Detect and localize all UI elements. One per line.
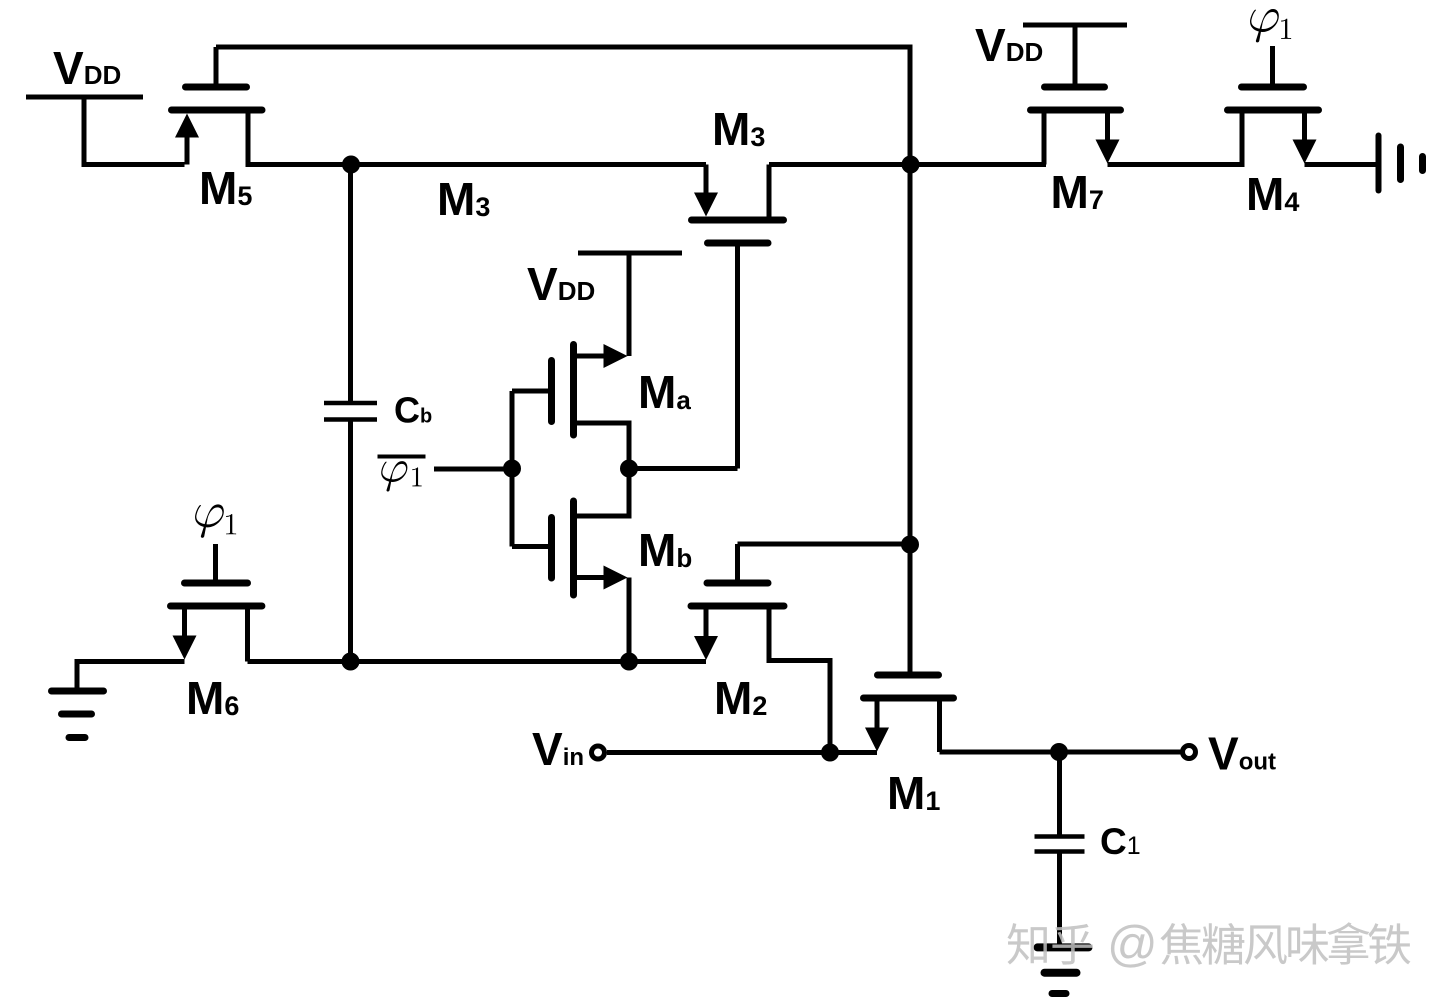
wire phi1bar to TG gates [434, 467, 512, 472]
node junction TG output [620, 460, 638, 478]
label M4 [1246, 168, 1299, 220]
wire M3 source to node X along bus [769, 162, 1046, 167]
svg-text:M4: M4 [1246, 168, 1299, 220]
wire Ma gate lead [512, 389, 549, 394]
node junction bus / Cb [342, 156, 360, 174]
label VDD M7 [975, 19, 1043, 71]
wire M7 source to M4 drain [1108, 162, 1245, 167]
label M3 (net label left) [437, 173, 490, 225]
wire M1 drain to Vout [940, 750, 1182, 755]
label Cb [394, 390, 432, 431]
svg-text:M1: M1 [887, 767, 940, 819]
svg-text:M2: M2 [714, 672, 767, 724]
wire M2 gate to node X [738, 542, 909, 547]
svg-text:M3: M3 [437, 173, 490, 225]
transistor M2 [691, 544, 830, 753]
svg-text:M3: M3 [712, 103, 765, 155]
node junction Vout / C1 [1050, 743, 1068, 761]
ground (bottom, C1) [1038, 947, 1089, 993]
terminal Vin [592, 746, 605, 759]
svg-text:M6: M6 [186, 672, 239, 724]
power rail VDD (Ma) [578, 253, 682, 356]
label M5 [199, 162, 252, 214]
wire TG gate vertical [510, 391, 515, 547]
wire Mb gate lead [512, 544, 549, 549]
svg-text:Vin: Vin [532, 723, 584, 775]
svg-text:Cb: Cb [394, 390, 432, 431]
label VDD left [53, 42, 121, 94]
transistor M3 (flipped, drain from bus) [692, 165, 784, 469]
label M3 (at transistor) [712, 103, 765, 155]
transistor Ma (rotated) [552, 344, 630, 469]
wire M5 drain to M3 drain along main bus y=164.5 [246, 162, 707, 167]
node junction bus / node X [902, 156, 920, 174]
watermark zhihu @jiaotang fengwei natie [1007, 916, 1410, 972]
node junction bottom net / Cb [342, 653, 360, 671]
label M6 [186, 672, 239, 724]
ground (right-facing, M4 source) [1379, 136, 1423, 191]
capacitor Cb [324, 165, 377, 662]
ground (left, M6 source) [52, 691, 104, 738]
wire top gate bus from M5 gate to node X vertical [216, 45, 910, 50]
svg-text:M5: M5 [199, 162, 252, 214]
svg-text:C1: C1 [1100, 821, 1141, 862]
transistor M5 [172, 47, 263, 165]
svg-text:VDD: VDD [53, 42, 121, 94]
svg-text:Mb: Mb [638, 524, 692, 576]
transistor M1 [864, 675, 954, 752]
label Vin [532, 723, 584, 775]
label C1 [1100, 821, 1141, 862]
wire phi1 lead to M4 gate [1270, 46, 1275, 87]
terminal Vout [1183, 746, 1196, 759]
label Ma [638, 366, 691, 418]
wire Vin to M1 source [607, 750, 877, 755]
capacitor C1 [1035, 752, 1085, 944]
transistor M7 [1031, 87, 1121, 165]
node junction node X / M2 gate [901, 536, 919, 554]
node junction Vin wire / M2 drain [821, 744, 839, 762]
wire VDD rail to M5 source [84, 95, 185, 165]
label phi1 (M4 gate) [1250, 9, 1291, 42]
node junction TG gate [503, 460, 521, 478]
power rail VDD (left, M5 source) [26, 95, 143, 100]
svg-text:VDD: VDD [527, 258, 595, 310]
wire vertical bus node X (x=910) from top bus down to M1 gate [908, 45, 913, 674]
wire phi1 lead to M6 gate [213, 544, 218, 583]
label Mb [638, 524, 692, 576]
label phi1bar (overline) [378, 457, 426, 492]
power rail VDD (M7 gate) [1023, 25, 1127, 87]
node junction bottom net / Mb [620, 653, 638, 671]
label M1 [887, 767, 940, 819]
label M2 [714, 672, 767, 724]
label M7 [1051, 166, 1104, 218]
transistor M4 [1228, 87, 1319, 165]
label phi1 (M6 gate) [195, 504, 236, 537]
svg-text:@: @ [1107, 916, 1158, 972]
label Vout [1208, 728, 1276, 780]
transistor M6 [171, 583, 262, 662]
transistor Mb (rotated) [552, 466, 630, 662]
label VDD Ma [527, 258, 595, 310]
svg-text:M7: M7 [1051, 166, 1104, 218]
wire TG output to M3 gate riser [629, 466, 738, 471]
wire bottom net from M6 drain to M2 source [248, 659, 707, 664]
wire M4 source to ground [1305, 162, 1379, 167]
svg-text:Ma: Ma [638, 366, 691, 418]
svg-text:Vout: Vout [1208, 728, 1276, 780]
wire M6 source to ground [77, 662, 185, 690]
